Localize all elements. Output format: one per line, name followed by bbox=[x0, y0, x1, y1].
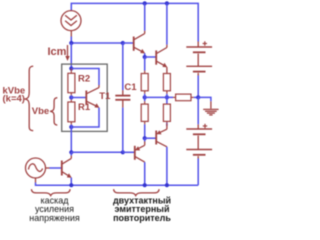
transistor T5 (lower output PNP) bbox=[156, 123, 167, 146]
wire: source to gain transistor base bbox=[50, 167, 62, 169]
svg-text:T1: T1 bbox=[99, 91, 111, 102]
resistor R5 (left emitter resistor, lower) bbox=[141, 101, 148, 124]
wire: T2 emitter node down to R3 bbox=[144, 57, 146, 71]
transistor T1 (NPN in Vbe multiplier) bbox=[86, 88, 99, 108]
label: двухтактный эмиттерный повторитель bbox=[113, 196, 171, 223]
label: + of battery B2 bbox=[203, 124, 207, 128]
arrow: Icm current direction bbox=[65, 45, 69, 61]
wire: current source to node A bbox=[70, 37, 72, 44]
junction: bottom rail / T6 emitter bbox=[69, 183, 73, 187]
svg-text:Vbe: Vbe bbox=[32, 106, 49, 117]
transistor T2 (upper NPN driver) bbox=[134, 34, 146, 54]
svg-text:повторитель: повторитель bbox=[113, 213, 171, 223]
wire: T2 emitter to node bbox=[144, 53, 146, 57]
svg-text:напряжения: напряжения bbox=[29, 213, 80, 223]
junction: T4 emitter / T5 base node bbox=[143, 136, 147, 140]
wire: node A to T2 base bbox=[123, 42, 133, 44]
wire: T3 emitter to R4 bbox=[166, 67, 168, 73]
current source Icm (circle with double chevron) bbox=[61, 11, 81, 37]
junction: R1/R2 mid node (T1 base) bbox=[69, 95, 73, 99]
wire: R6 to T5 emitter bbox=[166, 123, 168, 126]
junction: bottom rail / T5 collector bbox=[165, 183, 169, 187]
label: + of battery B1 bbox=[203, 41, 207, 45]
junction: T2 emitter / T3 base bbox=[143, 55, 147, 59]
junction: output node left bbox=[143, 95, 147, 99]
svg-text:(k=4): (k=4) bbox=[3, 94, 25, 105]
wire: B1 to mid-supply node bbox=[197, 76, 199, 98]
box: Vbe multiplier enclosure bbox=[62, 64, 107, 131]
junction: node A at C1 bbox=[121, 41, 125, 45]
resistor Rload (horizontal load resistor) bbox=[173, 94, 194, 101]
sine signal source V1 bbox=[26, 158, 50, 183]
wire: C1 bottom to node B bbox=[122, 108, 124, 153]
junction: top rail / T3 collector bbox=[165, 1, 169, 5]
wire: mid node to T1 base bbox=[71, 97, 85, 99]
wire: node down to T4 emitter bbox=[144, 138, 146, 141]
brace: kVbe (spans whole multiplier) bbox=[25, 66, 34, 131]
svg-text:R2: R2 bbox=[78, 73, 90, 84]
wire: T4 collector to bottom rail bbox=[144, 162, 146, 185]
node B wire: to C1 bottom bbox=[71, 151, 123, 153]
transistor T3 (upper output NPN) bbox=[156, 48, 167, 68]
wire: output node bus bbox=[145, 96, 173, 98]
capacitor C1 bbox=[115, 90, 130, 108]
label: каскад усиления напряжения bbox=[29, 196, 80, 223]
junction: box top node bbox=[69, 66, 73, 70]
svg-text:R1: R1 bbox=[78, 102, 91, 113]
resistor R2 bbox=[68, 69, 75, 96]
wire: T3 collector to top rail bbox=[166, 3, 168, 44]
battery B2 (lower supply, two cells) bbox=[186, 124, 212, 158]
junction: mid-supply node bbox=[196, 95, 200, 99]
wire: node B to T4 base bbox=[123, 151, 134, 153]
wire: R5 to T5 emitter node bbox=[144, 124, 146, 138]
wire: mid-supply node to ground bbox=[198, 97, 211, 101]
wire: top supply rail bbox=[71, 3, 198, 41]
wire: T5 collector to bottom rail bbox=[166, 147, 168, 185]
transistor T6 (voltage gain stage NPN) bbox=[62, 158, 72, 178]
wire: to T3 base bbox=[145, 56, 156, 58]
wire: T2 collector to top rail bbox=[144, 3, 146, 30]
wire: box bottom node down to node B bbox=[70, 127, 72, 152]
wire: mid-supply node to B2 bbox=[197, 97, 199, 124]
svg-text:Icm: Icm bbox=[48, 46, 67, 58]
brace: Vbe (spans R1) bbox=[50, 98, 57, 125]
transistor T4 (lower PNP driver) bbox=[135, 141, 145, 162]
wire: B2 to bottom rail bbox=[197, 159, 199, 186]
resistor R3 (left emitter resistor, upper) bbox=[141, 71, 148, 94]
wire: source bottom to bottom rail bbox=[36, 183, 72, 186]
wire: T1 collector stub bbox=[98, 85, 100, 88]
brace: voltage gain stage (underbrace) bbox=[31, 189, 70, 195]
junction: bottom rail / T4 collector bbox=[143, 183, 147, 187]
node B: junction at gain-stage collector bbox=[69, 150, 73, 154]
junction: top rail / T2 collector bbox=[143, 1, 147, 5]
wire: T6 collector to node B bbox=[70, 152, 72, 155]
wire: node A to C1 top bbox=[122, 43, 124, 90]
node A: wire from current source to C1 and T2 base bbox=[71, 42, 123, 44]
wire: bottom rail bbox=[71, 184, 198, 186]
junction: box bottom node bbox=[69, 125, 73, 129]
resistor R6 (right emitter resistor, lower) bbox=[163, 104, 170, 123]
wire: node A down into Vbe-multiplier box bbox=[70, 43, 72, 69]
wire: T1 emitter return to box bottom node bbox=[71, 108, 99, 127]
junction: output node right bbox=[165, 95, 169, 99]
resistor R1 bbox=[68, 100, 75, 125]
wire: box top node to T1 collector bbox=[71, 69, 99, 86]
wire: T6 emitter to bottom rail bbox=[70, 178, 72, 186]
brace: push-pull emitter follower (underbrace) bbox=[114, 189, 160, 195]
wire: load to mid-supply node bbox=[194, 96, 198, 98]
resistor R4 (right emitter resistor, upper) bbox=[163, 74, 170, 94]
battery B1 (upper supply, two cells) bbox=[186, 42, 212, 76]
junction: node A at current source bbox=[69, 41, 73, 45]
ground symbol bbox=[203, 101, 218, 115]
wire: to T5 base bbox=[145, 137, 156, 139]
junction: node B at C1 bbox=[121, 150, 125, 154]
svg-text:C1: C1 bbox=[124, 82, 137, 93]
